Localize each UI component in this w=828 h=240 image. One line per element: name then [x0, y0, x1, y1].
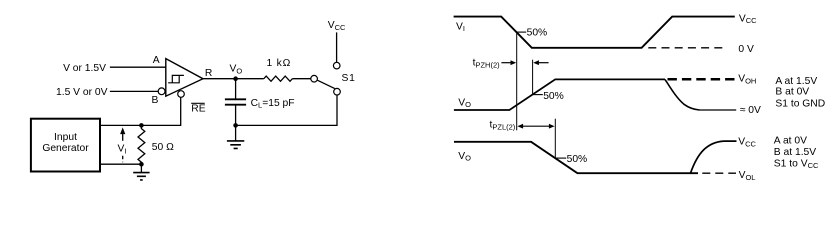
tPZH left arrow [501, 60, 516, 65]
capacitor C_L plates [225, 99, 246, 104]
svg-text:CL=15 pF: CL=15 pF [251, 98, 295, 110]
svg-text:tPZL(2): tPZL(2) [490, 120, 516, 132]
buffer U1 triangle (Schmitt-trigger driver) [166, 59, 203, 97]
svg-text:VO: VO [230, 64, 243, 76]
wire output rail [203, 78, 264, 80]
svg-text:RE: RE [191, 104, 205, 115]
svg-text:VI: VI [456, 21, 465, 33]
wire switch GND branch [236, 95, 337, 125]
svg-text:VO: VO [458, 97, 471, 109]
svg-text:S1: S1 [342, 73, 356, 84]
input generator box [31, 119, 100, 172]
svg-text:VCC: VCC [738, 137, 756, 149]
svg-text:B at 0V: B at 0V [775, 87, 809, 98]
marker line from V_I 50% crossing [516, 32, 518, 130]
svg-text:0 V: 0 V [738, 44, 754, 55]
svg-text:50%: 50% [527, 27, 548, 38]
wire resistor to switch pole [292, 78, 311, 80]
svg-text:S1 to GND: S1 to GND [775, 98, 825, 109]
svg-text:VO: VO [458, 151, 471, 163]
hysteresis symbol [168, 75, 184, 82]
node ground-rail junction [233, 123, 238, 128]
switch S1 throw contact (GND side) [334, 88, 341, 95]
ground symbol (load) [227, 141, 244, 149]
resistor R1 1 kΩ [264, 76, 293, 81]
50% tick waveform 1 [517, 31, 527, 33]
wire junction to RE bubble [141, 97, 180, 125]
svg-text:≈ 0V: ≈ 0V [740, 105, 761, 116]
wire junction to load ground [235, 125, 237, 140]
node junction at 50Ω bottom [139, 162, 144, 167]
switch S1 lever [317, 80, 335, 88]
svg-text:VI: VI [118, 144, 127, 156]
svg-text:A at 1.5V: A at 1.5V [775, 76, 817, 87]
svg-text:50%: 50% [543, 91, 564, 102]
tPZH right arrow [533, 60, 548, 65]
svg-text:1.5 V or 0V: 1.5 V or 0V [56, 87, 108, 98]
marker line to waveform 3 50% crossing [554, 119, 556, 158]
ground symbol (source) [133, 173, 149, 180]
wire capacitor to ground rail [235, 105, 237, 126]
node junction at 50Ω top [139, 123, 144, 128]
svg-text:50%: 50% [567, 154, 588, 165]
waveform 3 rise curve to VCC [691, 141, 737, 173]
tPZL double-headed arrow [517, 124, 554, 129]
wire VCC lead [336, 32, 338, 62]
svg-text:A: A [153, 55, 160, 66]
waveform 1 0V dashed level [648, 47, 727, 49]
svg-text:Generator: Generator [42, 143, 89, 154]
wire to source ground [140, 164, 142, 172]
svg-text:R: R [205, 68, 212, 79]
annotation block 2: A at 0V / B at 1.5V / S1 to VCC [774, 136, 819, 171]
svg-text:A at 0V: A at 0V [774, 136, 807, 147]
node V_O junction [233, 76, 238, 81]
svg-text:B at 1.5V: B at 1.5V [774, 147, 816, 158]
svg-text:VOL: VOL [739, 170, 756, 182]
svg-text:S1 to VCC: S1 to VCC [774, 159, 819, 171]
wire generator bottom output [100, 163, 141, 165]
svg-text:50 Ω: 50 Ω [152, 142, 174, 153]
svg-text:Input: Input [54, 132, 77, 143]
waveform 2 ≈0V tail [700, 109, 737, 111]
50% tick waveform 2 [533, 94, 543, 96]
svg-text:VOH: VOH [738, 74, 756, 86]
waveform 1 V_I trace [454, 17, 735, 48]
50% tick waveform 3 [555, 157, 566, 159]
inversion bubble at input B [158, 88, 165, 95]
switch S1 pole contact [311, 75, 318, 82]
marker line to waveform2 50% crossing [532, 60, 534, 95]
svg-text:B: B [151, 95, 158, 106]
wire V_O to capacitor [235, 79, 237, 100]
label RE with overline [191, 103, 206, 114]
svg-text:VCC: VCC [328, 20, 346, 32]
V_I arrow dashed tail [122, 156, 124, 163]
svg-text:V or 1.5V: V or 1.5V [63, 63, 106, 74]
wire generator top output [100, 124, 141, 126]
svg-text:tPZH(2): tPZH(2) [473, 58, 501, 70]
resistor 50Ω [138, 125, 145, 164]
waveform 3 V_OL dashed level [702, 172, 736, 174]
svg-text:1 kΩ: 1 kΩ [266, 58, 291, 69]
wire input B [110, 90, 158, 92]
waveform 2 V_OH thick dashed level [668, 78, 737, 81]
waveform 3 V_O trace [454, 142, 698, 173]
waveform 2 decay curve to ≈0V [665, 79, 700, 110]
inversion bubble at enable RE [178, 91, 185, 98]
wire input A [110, 66, 166, 68]
waveform 2 V_O trace [454, 79, 665, 110]
svg-text:VCC: VCC [739, 13, 757, 25]
switch S1 throw contact (VCC side) [333, 62, 340, 69]
V_I arrow annotation [120, 127, 125, 140]
annotation block 1: A at 1.5V / B at 0V / S1 to GND [775, 76, 825, 109]
label Input Generator [42, 132, 89, 154]
